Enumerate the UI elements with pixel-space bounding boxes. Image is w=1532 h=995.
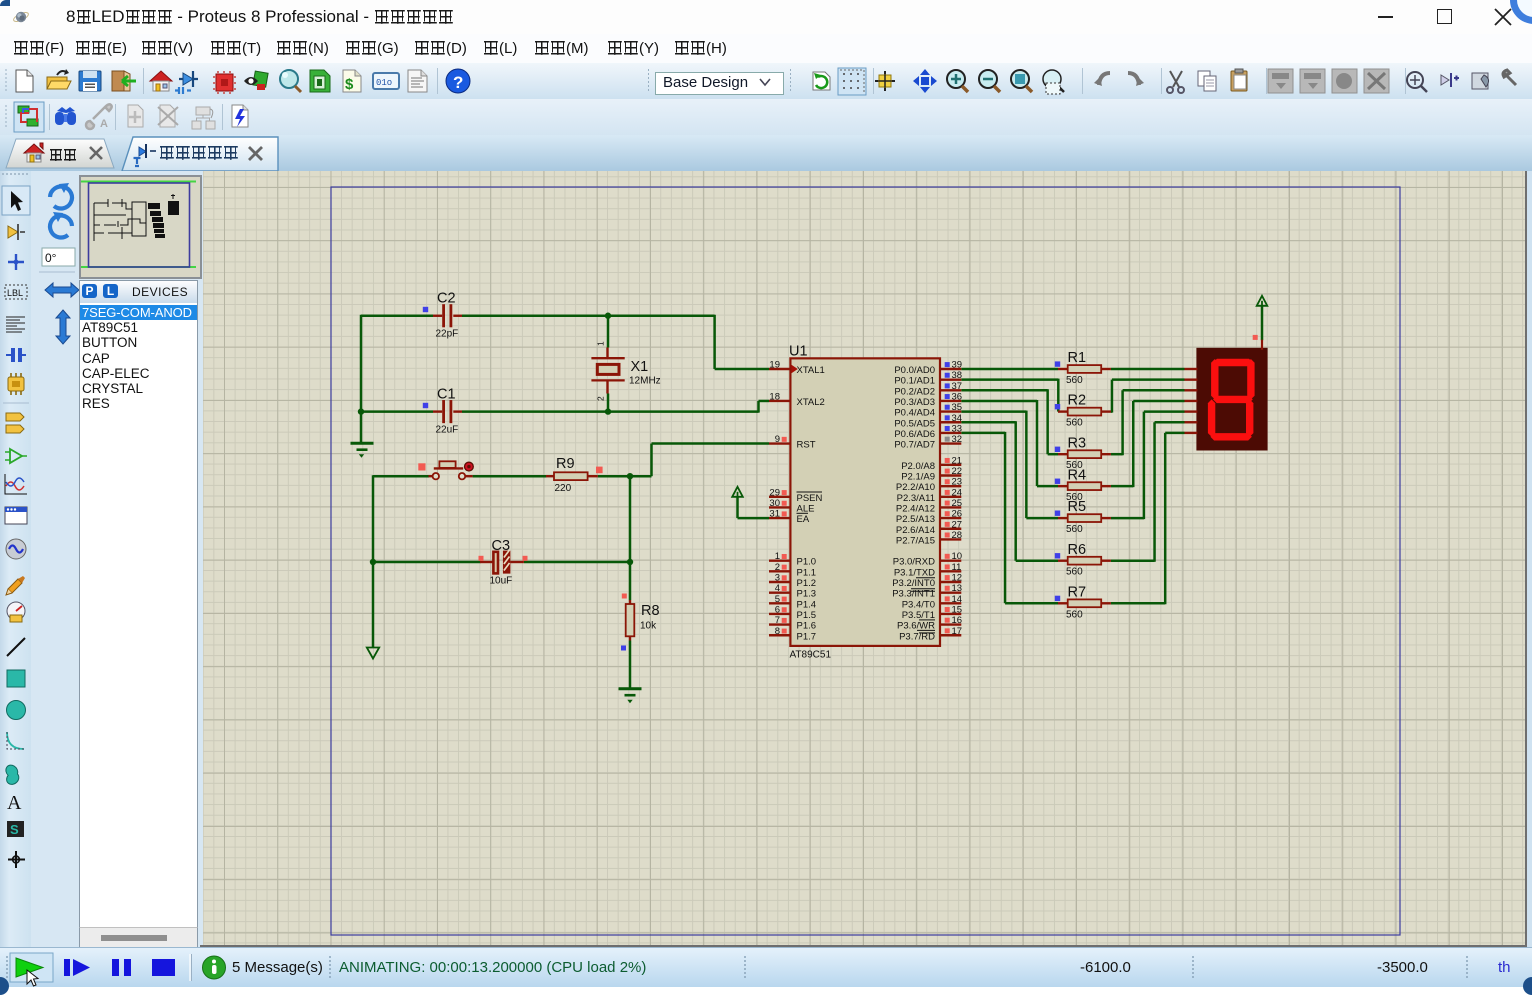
svg-text:P3.0/RXD: P3.0/RXD xyxy=(893,557,935,568)
svg-text:19: 19 xyxy=(769,360,780,371)
pin 26 P2.5/A13 xyxy=(940,517,961,519)
wire P0.1 to R2 xyxy=(961,378,1058,381)
display segment c xyxy=(1246,399,1253,436)
wire C2 left segment to XTAL1 net xyxy=(361,315,433,318)
svg-text:6: 6 xyxy=(775,604,780,615)
pin 22 P2.1/A9 xyxy=(940,474,961,476)
svg-text:12: 12 xyxy=(952,573,963,584)
wire display common anode to power xyxy=(1261,306,1264,341)
svg-text:36: 36 xyxy=(952,391,963,402)
indicator square R1 xyxy=(1055,361,1060,366)
exit door xyxy=(112,71,124,91)
pin 14 P3.4/T0 xyxy=(940,602,961,604)
svg-text:27: 27 xyxy=(952,519,963,530)
svg-text:7: 7 xyxy=(775,615,780,626)
svg-text:10k: 10k xyxy=(640,621,657,632)
pin 6 P1.5 xyxy=(769,613,790,615)
overview thumbnail pane xyxy=(79,175,202,279)
resistor R2 xyxy=(1058,410,1068,412)
svg-text:P2.4/A12: P2.4/A12 xyxy=(896,503,935,514)
resistor R9 xyxy=(546,475,554,477)
svg-text:P0.1/AD1: P0.1/AD1 xyxy=(894,376,935,387)
svg-text:P0.3/AD3: P0.3/AD3 xyxy=(894,397,935,408)
eye/netlist xyxy=(253,71,268,87)
capacitor C2 xyxy=(433,315,442,317)
pin 5 P1.4 xyxy=(769,602,790,604)
magnifier xyxy=(280,70,298,88)
svg-text:R9: R9 xyxy=(556,456,575,472)
undo xyxy=(1099,73,1110,85)
pin 33 P0.6/AD6 xyxy=(940,432,961,434)
svg-text:P0.5/AD5: P0.5/AD5 xyxy=(894,418,935,429)
svg-text:P0.2/AD2: P0.2/AD2 xyxy=(894,386,935,397)
svg-text:P1.0: P1.0 xyxy=(797,557,817,568)
capacitor C3 electrolytic xyxy=(480,561,493,563)
wire C2 right segment xyxy=(462,315,715,318)
pin 28 P2.7/A15 xyxy=(940,538,961,540)
overline INT1 xyxy=(911,590,935,592)
crystal X1 xyxy=(606,348,608,358)
svg-text:22pF: 22pF xyxy=(436,329,459,340)
node junction C3 right xyxy=(627,559,633,565)
svg-text:560: 560 xyxy=(1066,375,1083,386)
svg-text:R2: R2 xyxy=(1068,393,1087,409)
svg-text:14: 14 xyxy=(952,594,963,605)
underline T1 xyxy=(919,619,935,621)
svg-text:U1: U1 xyxy=(789,344,808,360)
svg-text:P2.2/A10: P2.2/A10 xyxy=(896,482,935,493)
device list xyxy=(79,303,198,928)
open xyxy=(47,77,67,89)
pin 16 P3.6/WR xyxy=(940,623,961,625)
wire R9 to RST corner xyxy=(598,475,652,478)
svg-text:S: S xyxy=(10,822,19,837)
wire button right to R9 xyxy=(473,475,547,478)
pick parts etc xyxy=(1407,72,1423,88)
node junction at R9 output xyxy=(627,473,633,479)
wire R8 top lead net xyxy=(629,562,632,600)
svg-text:28: 28 xyxy=(952,530,963,541)
resistor R1 xyxy=(1058,368,1068,370)
wire R5 to display pin 5 xyxy=(1111,517,1144,520)
display segment d xyxy=(1210,433,1252,440)
underline WR xyxy=(917,629,935,631)
pan xyxy=(913,69,937,93)
wire R3 to display pin 3 xyxy=(1111,453,1123,456)
resistor R7 xyxy=(1058,602,1068,604)
ground G2 xyxy=(619,687,642,690)
zoom all xyxy=(1011,70,1029,88)
indicator square R2 xyxy=(1055,404,1060,409)
svg-text:18: 18 xyxy=(769,391,780,402)
tab 主页 xyxy=(6,139,114,168)
svg-text:31: 31 xyxy=(769,509,780,520)
pin 31 EA xyxy=(769,517,790,519)
svg-text:15: 15 xyxy=(952,604,963,615)
svg-text:22: 22 xyxy=(952,466,963,477)
pin 21 P2.0/A8 xyxy=(940,464,961,466)
wire C1 right segment to XTAL2 xyxy=(462,410,759,413)
resistor R6 xyxy=(1058,560,1068,562)
pin 23 P2.2/A10 xyxy=(940,485,961,487)
zoom area xyxy=(1043,70,1061,88)
text doc xyxy=(408,70,427,92)
svg-text:C2: C2 xyxy=(437,291,456,307)
XTAL1 clock dot xyxy=(791,365,797,373)
redo xyxy=(1128,73,1139,85)
list scrollbar xyxy=(79,927,198,949)
wire R6 to display pin 6 xyxy=(1111,559,1155,562)
paste xyxy=(1231,71,1247,91)
svg-text:P1.6: P1.6 xyxy=(797,621,817,632)
pin 13 P3.3/INT1 xyxy=(940,591,961,593)
pin 4 P1.3 xyxy=(769,591,790,593)
wire RST horizontal xyxy=(652,442,770,445)
schematic sheet border frame xyxy=(331,187,1400,935)
wire C3 right segment xyxy=(524,561,630,564)
wire P0.5 to R6 xyxy=(961,421,1015,424)
indicator square R7 xyxy=(1055,596,1060,601)
wire C1 left segment xyxy=(361,410,433,413)
grid toggle (selected) xyxy=(838,68,866,95)
svg-text:24: 24 xyxy=(952,487,963,498)
svg-text:2: 2 xyxy=(596,396,606,401)
pin 19 XTAL1 xyxy=(769,368,790,370)
svg-text:17: 17 xyxy=(952,626,963,637)
svg-text:16: 16 xyxy=(952,615,963,626)
indicator square display anode xyxy=(1253,335,1258,340)
svg-text:RST: RST xyxy=(797,440,816,451)
svg-text:13: 13 xyxy=(952,583,963,594)
pin 38 P0.1/AD1 xyxy=(940,378,961,380)
svg-text:25: 25 xyxy=(952,498,963,509)
svg-text:3: 3 xyxy=(775,573,780,584)
wire EA power drop xyxy=(736,497,739,519)
schematic icon xyxy=(134,144,157,166)
svg-text:560: 560 xyxy=(1066,418,1083,429)
svg-text:1: 1 xyxy=(596,341,606,346)
wire P0.6 to R7 xyxy=(961,432,1005,435)
indicator square R8 top xyxy=(622,594,627,599)
power arrow at display xyxy=(1257,296,1268,306)
pin 39 P0.0/AD0 xyxy=(940,368,961,370)
svg-text:220: 220 xyxy=(555,483,572,494)
node junction C3 left xyxy=(370,559,376,565)
svg-text:2: 2 xyxy=(775,562,780,573)
svg-text:01o: 01o xyxy=(376,78,392,88)
svg-text:P0.6/AD6: P0.6/AD6 xyxy=(894,429,935,440)
wire R4 to display pin 4 xyxy=(1111,485,1133,488)
push button xyxy=(429,475,434,477)
svg-text:P0.7/AD7: P0.7/AD7 xyxy=(894,440,935,451)
cut xyxy=(1170,71,1182,87)
svg-text:P2.0/A8: P2.0/A8 xyxy=(901,461,935,472)
svg-text:P1.4: P1.4 xyxy=(797,599,817,610)
wire X1 pin2 drop xyxy=(607,394,610,412)
svg-text:P1.2: P1.2 xyxy=(797,578,817,589)
pin 24 P2.3/A11 xyxy=(940,496,961,498)
wire R2 to display pin 2 xyxy=(1111,410,1112,413)
svg-text:P2.1/A9: P2.1/A9 xyxy=(901,472,935,483)
indicator square C3 left xyxy=(479,556,484,561)
help xyxy=(446,69,470,93)
capacitor C1 xyxy=(433,410,442,412)
pin 2 P1.1 xyxy=(769,570,790,572)
wire left vertical button to C3 xyxy=(372,475,375,562)
node junction at C1 left xyxy=(358,408,364,414)
svg-text:10uF: 10uF xyxy=(490,576,513,587)
display segment g xyxy=(1213,396,1253,403)
svg-text:P3.1/TXD: P3.1/TXD xyxy=(894,567,935,578)
wire C3 to down-arrow terminal xyxy=(372,562,375,647)
svg-text:10: 10 xyxy=(952,551,963,562)
pin 25 P2.4/A12 xyxy=(940,506,961,508)
svg-text:34: 34 xyxy=(952,413,963,424)
new xyxy=(16,70,33,92)
wire P0.2 to R3 xyxy=(961,389,1047,392)
pin 11 P3.1/TXD xyxy=(940,570,961,572)
svg-text:P2.3/A11: P2.3/A11 xyxy=(897,493,935,504)
wire RST vertical to reset net xyxy=(650,444,653,477)
svg-text:C1: C1 xyxy=(437,386,456,402)
svg-text:$: $ xyxy=(345,76,354,93)
block ops (disabled) xyxy=(1268,69,1389,93)
devices header xyxy=(79,280,198,305)
svg-text:P0.0/AD0: P0.0/AD0 xyxy=(894,365,935,376)
indicator square R8 bottom xyxy=(621,646,626,651)
svg-text:P1.5: P1.5 xyxy=(797,610,817,621)
svg-text:560: 560 xyxy=(1066,567,1083,578)
svg-text:XTAL2: XTAL2 xyxy=(797,397,825,408)
svg-text:P1.7: P1.7 xyxy=(797,631,817,642)
svg-text:P3.4/T0: P3.4/T0 xyxy=(902,599,935,610)
pin 30 ALE xyxy=(769,506,790,508)
wire corner up to XTAL2 xyxy=(757,401,760,413)
svg-text:R8: R8 xyxy=(641,603,660,619)
indicator square R3 xyxy=(1055,447,1060,452)
copy xyxy=(1198,71,1210,86)
underline INT0 xyxy=(911,588,935,590)
svg-text:33: 33 xyxy=(952,423,963,434)
svg-text:LBL: LBL xyxy=(7,288,23,298)
pin 37 P0.2/AD2 xyxy=(940,389,961,391)
7-segment display DS1 body xyxy=(1196,348,1267,451)
svg-text:R3: R3 xyxy=(1068,435,1087,451)
resistor R4 xyxy=(1058,485,1068,487)
pin 10 P3.0/RXD xyxy=(940,560,961,562)
svg-text:30: 30 xyxy=(769,498,780,509)
svg-text:EA: EA xyxy=(797,514,810,525)
indicator square C3 right xyxy=(523,556,528,561)
svg-text:C3: C3 xyxy=(492,538,511,554)
zoom out xyxy=(979,70,997,88)
svg-text:560: 560 xyxy=(1066,609,1083,620)
wire corner down to XTAL1 xyxy=(713,315,716,369)
wire button left xyxy=(373,475,429,478)
component mode xyxy=(183,73,193,85)
overline TXD xyxy=(916,577,935,579)
display common anode stub xyxy=(1261,340,1263,350)
svg-text:4: 4 xyxy=(775,583,780,594)
svg-text:R5: R5 xyxy=(1068,499,1087,515)
pin 3 P1.2 xyxy=(769,581,790,583)
resistor R3 xyxy=(1058,453,1068,455)
pin 36 P0.3/AD3 xyxy=(940,400,961,402)
node junction at X1 bottom xyxy=(605,408,611,414)
svg-text:XTAL1: XTAL1 xyxy=(797,365,825,376)
pin 34 P0.5/AD5 xyxy=(940,421,961,423)
svg-text:560: 560 xyxy=(1066,524,1083,535)
wire X1 pin1 drop xyxy=(607,316,610,348)
svg-text:P2.5/A13: P2.5/A13 xyxy=(896,514,935,525)
resistor R8 xyxy=(629,600,631,604)
wire C3 left segment xyxy=(373,561,481,564)
wire R7 to display pin 7 xyxy=(1111,602,1165,605)
svg-text:22uF: 22uF xyxy=(436,424,459,435)
svg-text:26: 26 xyxy=(952,509,963,520)
display segment f xyxy=(1211,359,1218,399)
wire P0.4 to R5 xyxy=(961,410,1026,413)
pin 18 XTAL2 xyxy=(769,400,790,402)
svg-text:23: 23 xyxy=(952,477,963,488)
push button actuator dot xyxy=(465,462,474,471)
wire left vertical C2-C1 xyxy=(360,315,363,412)
pin 35 P0.4/AD4 xyxy=(940,410,961,412)
pin 1 P1.0 xyxy=(769,560,790,562)
svg-text:11: 11 xyxy=(952,562,962,573)
wire R1 to display pin A xyxy=(1111,368,1185,371)
svg-text:?: ? xyxy=(453,73,463,92)
svg-text:R4: R4 xyxy=(1068,467,1087,483)
power arrow at EA xyxy=(732,487,743,497)
indicator square R4 xyxy=(1055,479,1060,484)
svg-text:P2.6/A14: P2.6/A14 xyxy=(896,525,935,536)
zoom in xyxy=(947,70,965,88)
pcb doc xyxy=(310,70,330,92)
display pin stubs xyxy=(1185,368,1198,370)
resistor R5 xyxy=(1058,517,1068,519)
ground G1 xyxy=(351,442,374,445)
home xyxy=(150,71,172,81)
svg-text:P3.5/T1: P3.5/T1 xyxy=(902,610,935,621)
op-amp U1 AT89C51 microcontroller body xyxy=(790,358,940,646)
down arrow output terminal xyxy=(367,648,379,659)
pin 29 PSEN xyxy=(769,496,790,498)
svg-text:R6: R6 xyxy=(1068,542,1087,558)
chip red xyxy=(216,74,233,91)
indicator square button xyxy=(418,463,425,470)
svg-text:0°: 0° xyxy=(45,251,57,265)
svg-text:29: 29 xyxy=(769,487,780,498)
svg-text:A: A xyxy=(7,792,22,814)
svg-text:P1.1: P1.1 xyxy=(797,567,817,578)
origin xyxy=(875,71,895,91)
pin 15 P3.5/T1 xyxy=(940,613,961,615)
svg-text:1: 1 xyxy=(775,551,780,562)
display segment a xyxy=(1213,359,1253,366)
wire P0.3 to R4 xyxy=(961,400,1037,403)
wire R8 bottom to ground G2 xyxy=(629,641,632,689)
svg-text:38: 38 xyxy=(952,370,963,381)
svg-text:8: 8 xyxy=(775,626,780,637)
x1 xyxy=(90,147,102,159)
pin 17 P3.7/RD xyxy=(940,634,961,636)
pin 8 P1.7 xyxy=(769,634,790,636)
indicator square R5 xyxy=(1055,511,1060,516)
svg-text:AT89C51: AT89C51 xyxy=(790,650,832,661)
svg-text:P0.4/AD4: P0.4/AD4 xyxy=(894,408,935,419)
wire down to ground G1 xyxy=(360,412,363,443)
x2 xyxy=(249,147,262,160)
bom doc xyxy=(343,70,361,92)
svg-text:39: 39 xyxy=(952,360,963,371)
indicator square C1 xyxy=(423,403,428,408)
pin 9 RST xyxy=(769,442,790,444)
svg-text:5: 5 xyxy=(775,594,780,605)
indicator square C2 xyxy=(423,307,428,312)
display segment b xyxy=(1247,359,1254,399)
svg-text:PSEN: PSEN xyxy=(797,493,823,504)
svg-text:R7: R7 xyxy=(1068,584,1087,600)
indicator square R9 xyxy=(596,467,603,474)
svg-text:P2.7/A15: P2.7/A15 xyxy=(896,535,935,546)
svg-text:35: 35 xyxy=(952,402,963,413)
pin 12 P3.2/INT0 xyxy=(940,581,961,583)
home icon xyxy=(24,143,44,162)
svg-text:37: 37 xyxy=(952,381,963,392)
pin 32 P0.7/AD7 xyxy=(940,442,961,444)
save xyxy=(79,71,101,91)
svg-text:21: 21 xyxy=(952,455,963,466)
svg-text:9: 9 xyxy=(775,434,780,445)
pin 27 P2.6/A14 xyxy=(940,528,961,530)
svg-text:X1: X1 xyxy=(631,359,649,375)
refresh sheet xyxy=(813,72,830,90)
overline RD xyxy=(919,632,935,634)
svg-text:12MHz: 12MHz xyxy=(629,376,661,387)
pin 7 P1.6 xyxy=(769,623,790,625)
indicator square R6 xyxy=(1055,553,1060,558)
svg-text:P3.2/INT0: P3.2/INT0 xyxy=(892,578,935,589)
svg-text:32: 32 xyxy=(952,434,963,445)
svg-text:A: A xyxy=(100,118,108,130)
wire P0.0 to R1 xyxy=(961,368,1058,371)
display segment e xyxy=(1208,399,1215,436)
wire reset divider vertical xyxy=(629,476,632,562)
svg-text:P1.3: P1.3 xyxy=(797,589,817,600)
node junction at X1 top xyxy=(605,313,611,319)
svg-text:R1: R1 xyxy=(1068,350,1087,366)
svg-text:P3.3/INT1: P3.3/INT1 xyxy=(892,589,935,600)
0101 box xyxy=(373,73,399,89)
